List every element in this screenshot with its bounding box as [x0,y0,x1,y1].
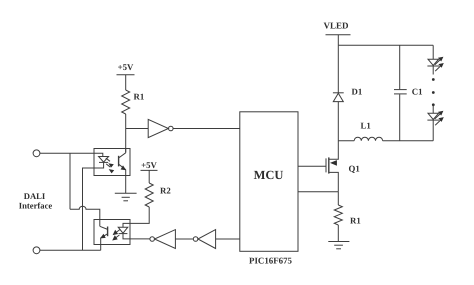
inverter U5 [150,230,176,249]
wire: rail down to D1 cathode [337,45,339,93]
U2 LED emission arrows [106,158,114,173]
svg-text:Interface: Interface [19,201,53,211]
wire: VLED bar to top rail junction [337,35,339,46]
capacitor C1 [394,90,407,94]
wire: current-sense feedback to MCU [298,191,338,193]
svg-text:+5V: +5V [118,62,134,72]
svg-text:R1: R1 [350,215,361,225]
wire: node A to inverter U4 input [126,128,149,130]
resistor R1 (current sense) [334,205,342,225]
LED D2 emission arrows [435,57,444,71]
svg-text:MCU: MCU [254,168,284,182]
LED D3 (bottom of LED string) [427,106,439,141]
power VLED supply symbol [323,21,350,35]
wire: U2 emitter to ground [125,176,127,194]
wire: D1 anode down to switch node [337,102,339,141]
svg-text:PIC16F675: PIC16F675 [249,256,292,266]
wire: DALI- terminal to U3 emitter [40,249,101,251]
wire: U2 LED cathode down to DALI- line [83,168,95,250]
optocoupler U3 (transmit) body [94,220,130,245]
wire: U3 LED cathode to inverter U5 output [130,238,150,240]
U3 LED [118,223,130,239]
svg-text:VLED: VLED [323,21,349,31]
wire: R2 to U3 LED anode [130,207,149,223]
power +5V symbol (above R2) [141,160,158,170]
LED D2 (top of LED string) [427,45,439,74]
inductor L1 [354,137,382,141]
U2 phototransistor [119,149,127,176]
wire: L1 to LED string return [383,140,434,142]
wire: R1 to ground [337,225,339,242]
U2 LED [94,153,109,168]
wire: U5 input to U6 output [175,238,193,240]
label: DALI Interface [19,191,53,211]
wire: rail down to capacitor C1 [399,45,401,89]
wire: switch node to L1 [338,140,354,142]
wire: Q1 source to sense resistor [337,192,339,205]
wire hop: DALI+ branch crossing over DALI- line [70,206,100,226]
wire: U6 input to MCU TX pin [216,238,240,240]
svg-text:C1: C1 [412,87,423,97]
transistor Q1 (N-MOSFET) [326,141,338,192]
wire: +5V bar to resistor R2 [148,170,150,183]
wire: U4 output to MCU RX pin [173,128,240,130]
svg-text:+5V: +5V [141,160,157,170]
ground (below U2) [115,193,137,201]
wire: DALI+ terminal to optocoupler U2 LED anode [40,152,94,154]
wire: VLED top rail [338,44,433,46]
ground (below sense R1) [328,242,349,249]
inverter U6 [193,230,215,249]
svg-text:D1: D1 [352,87,363,97]
LED D3 emission arrows [435,111,444,125]
diode D1 (freewheel) [333,93,344,102]
wire: +5V bar to resistor R1 [125,75,127,90]
resistor R2 [145,183,153,207]
power +5V symbol (left, above R1) [117,62,135,75]
svg-text:Q1: Q1 [349,164,360,174]
svg-text:DALI: DALI [24,191,46,201]
resistor R1 (DALI pull-up) [122,90,130,114]
svg-text:R2: R2 [160,185,171,195]
svg-text:L1: L1 [361,120,371,130]
optocoupler U2 (receive) body [94,149,130,176]
terminal: DALI - (bottom circle) [33,247,40,254]
U3 LED emission arrows [112,230,120,241]
ellipsis dots (more LEDs) [432,78,435,106]
op-amp U1: MCU body [240,112,298,252]
U3 phototransistor [100,226,108,250]
inverter U4 (receive buffer) [148,119,173,137]
wire: MCU gate drive to Q1 gate [298,165,326,167]
wire: C1 bottom to return rail [399,94,401,140]
svg-text:R1: R1 [134,92,145,102]
wire: DALI+ branch down to U3 collector [69,153,71,209]
wire: R1 to node A and down into U2 [125,114,127,152]
terminal: DALI + (top circle) [33,150,40,157]
